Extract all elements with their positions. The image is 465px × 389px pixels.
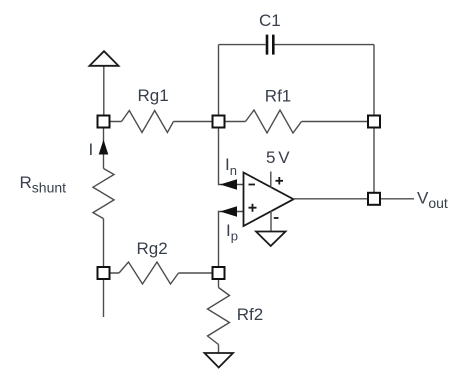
svg-text:In: In	[225, 155, 237, 178]
svg-text:Ip: Ip	[226, 221, 238, 244]
svg-text:Rf2: Rf2	[237, 305, 263, 324]
svg-text:Vout: Vout	[417, 188, 448, 211]
svg-text:5: 5	[266, 148, 275, 167]
svg-text:I: I	[89, 140, 94, 159]
svg-text:Rf1: Rf1	[265, 87, 291, 106]
svg-text:Rshunt: Rshunt	[20, 173, 67, 196]
svg-text:C1: C1	[259, 11, 281, 30]
svg-text:V: V	[278, 148, 290, 167]
svg-text:Rg1: Rg1	[138, 86, 169, 105]
svg-text:Rg2: Rg2	[137, 239, 168, 258]
